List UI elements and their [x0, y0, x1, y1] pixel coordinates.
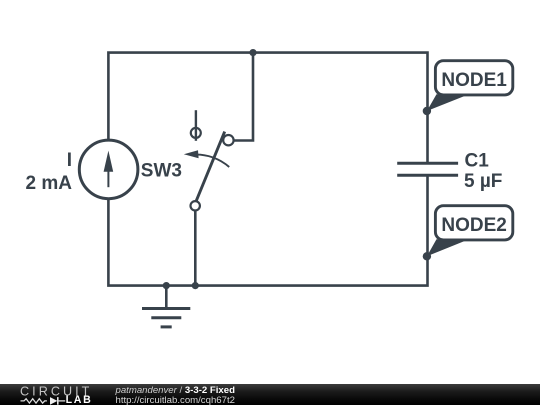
- svg-text:2 mA: 2 mA: [26, 173, 73, 194]
- svg-text:I: I: [67, 150, 72, 171]
- node NODE2 flag: [423, 206, 513, 261]
- capacitor C1: [397, 163, 458, 175]
- switch SW3: upper throw terminal stub: [195, 110, 197, 141]
- wire: top rail from current source top through top-left corner to cap top (node NODE1 rail): [108, 53, 427, 164]
- svg-text:NODE1: NODE1: [441, 70, 507, 91]
- wire: bottom rail from current source bottom through bottom corners to cap bottom (ground rail): [108, 175, 427, 285]
- svg-text:C1: C1: [465, 151, 490, 172]
- switch SW3: upper throw contact circle: [191, 128, 201, 138]
- svg-text:5 µF: 5 µF: [464, 171, 502, 192]
- wire: switch right terminal riser to top rail: [234, 53, 253, 141]
- ground: [142, 286, 190, 327]
- current source I (2 mA): [79, 140, 138, 199]
- switch SW3: [184, 110, 234, 210]
- svg-text:NODE2: NODE2: [441, 215, 506, 236]
- switch SW3: lever arm: [196, 132, 225, 202]
- switch SW3: actuation arc: [194, 155, 229, 167]
- junction: bottom rail / ground: [163, 282, 170, 289]
- junction: top rail / switch riser: [249, 49, 256, 56]
- svg-text:SW3: SW3: [141, 160, 182, 181]
- CircuitLab logo: [20, 385, 92, 405]
- switch SW3: pivot contact circle: [191, 201, 200, 210]
- svg-text:http://circuitlab.com/cqh67t2: http://circuitlab.com/cqh67t2: [116, 395, 235, 405]
- footer bar: [0, 384, 540, 405]
- switch SW3: right contact circle: [223, 135, 233, 145]
- wire: switch bottom terminal to bottom rail: [194, 212, 197, 286]
- junction: bottom rail / switch branch: [192, 282, 199, 289]
- svg-text:LAB: LAB: [66, 394, 93, 405]
- switch SW3: actuation arrowhead: [184, 150, 199, 158]
- node NODE1 flag: [423, 61, 513, 116]
